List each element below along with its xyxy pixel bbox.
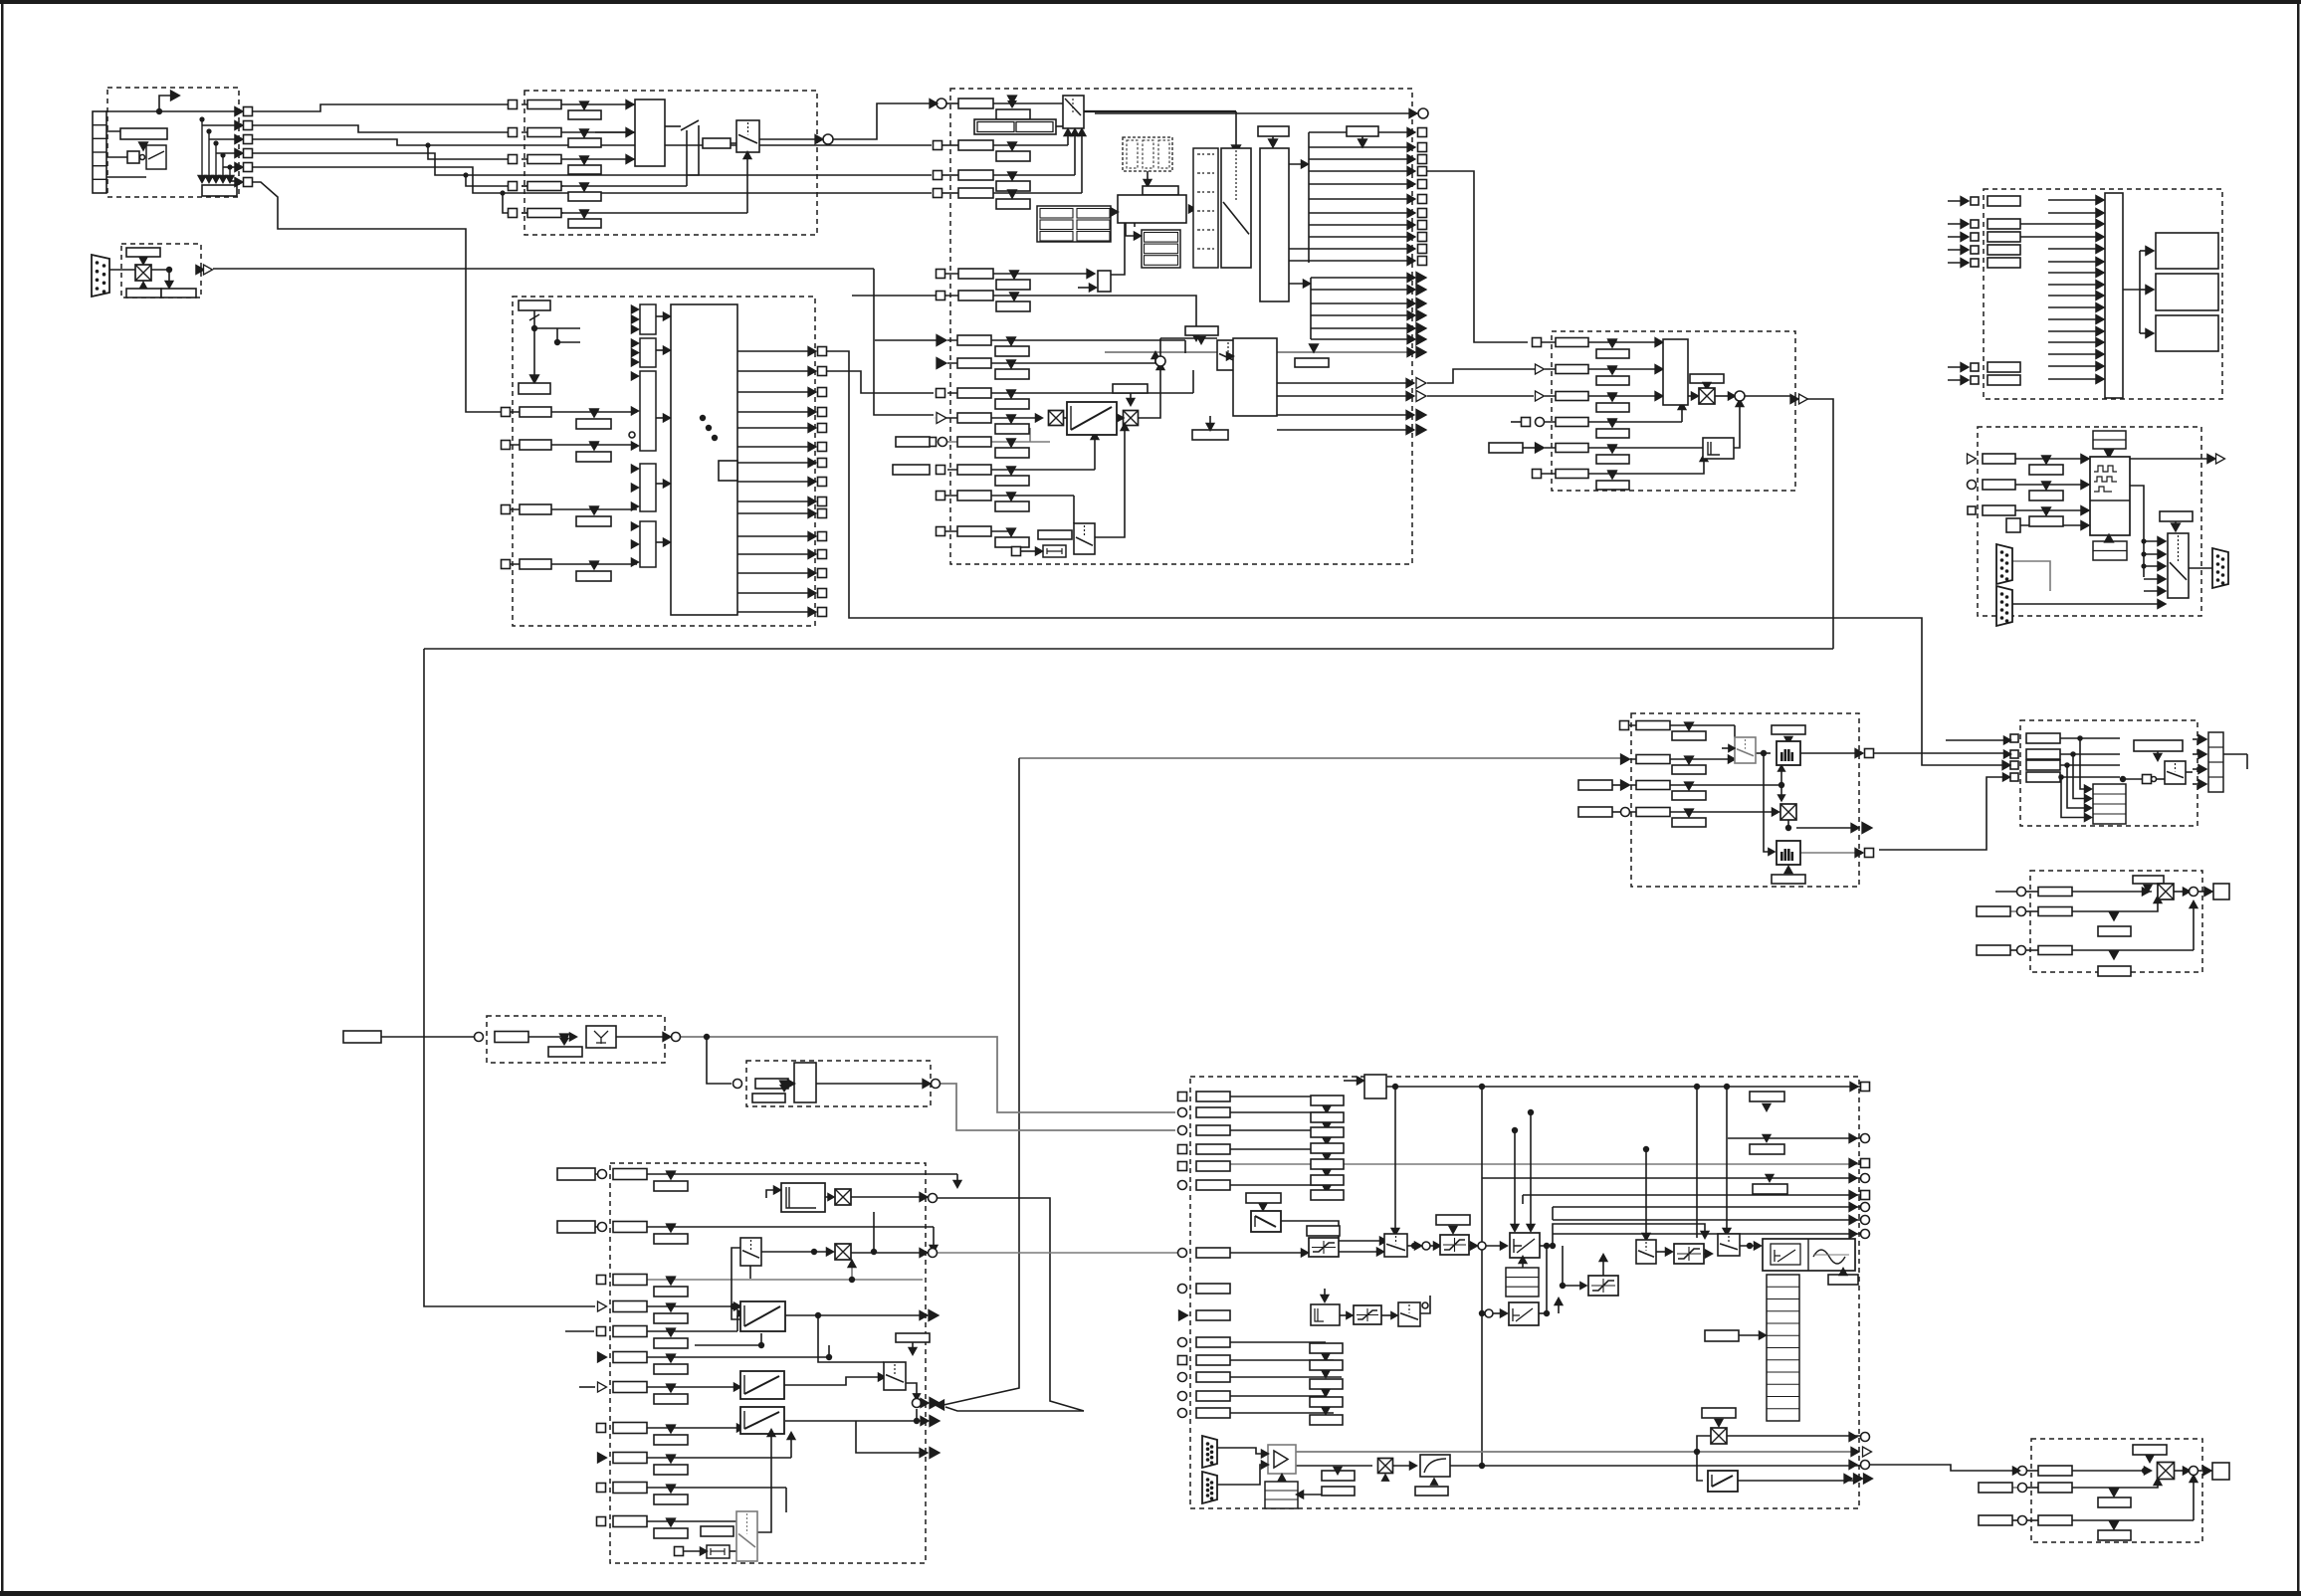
parameter label out354 [1295, 358, 1329, 367]
node: bB input circle1 [2017, 888, 2026, 897]
parameter box Y1 [495, 1032, 528, 1043]
NOT small box [2143, 775, 2152, 784]
wire sc row7 [647, 1386, 737, 1388]
wire bB out [2198, 891, 2208, 893]
wire drop c [1645, 1149, 1647, 1236]
wire status bit 14 [737, 592, 815, 594]
wire: serial down to central delta input [874, 269, 934, 415]
wire status out 11 [1289, 260, 1413, 262]
amp label [1322, 1471, 1355, 1481]
parameter box bB1 [2038, 888, 2072, 897]
node: status output 8 [818, 478, 827, 487]
wire cc row1 [1542, 341, 1663, 343]
selector 2 + sat mid chain [1643, 1146, 1649, 1152]
node: lim output circle [932, 1080, 941, 1089]
ramp-function generator [740, 1407, 784, 1434]
node: input square 472 [937, 466, 945, 475]
wire bus in 4 [2020, 236, 2101, 238]
external parameter box [1489, 443, 1523, 453]
wire status out 1 [1309, 131, 1413, 133]
parameter box tl4 [1196, 1144, 1230, 1154]
parameter value sc5 [654, 1329, 688, 1348]
wire [1722, 747, 1735, 749]
chain parameter box 4 [1311, 1143, 1344, 1153]
node: tl out tri 1486a [1854, 1474, 1863, 1484]
marker [1608, 366, 1617, 374]
tap to setpoint in4 [463, 172, 468, 177]
parameter box serial-lo left [126, 289, 161, 298]
parameter box sc10 [613, 1483, 647, 1494]
marker [1715, 1419, 1723, 1426]
bubble [1422, 1302, 1428, 1308]
node: Y output circle [672, 1033, 681, 1042]
wire bypass [1553, 1224, 1705, 1246]
wire bus in 6 [2048, 261, 2101, 263]
down arrow marker [580, 183, 589, 191]
wire cc row4 [1545, 421, 1682, 423]
gate label [1828, 1275, 1858, 1285]
stub down [168, 270, 170, 283]
junction dots and drops into table [2077, 735, 2083, 741]
dashed group: serial setpoint interface [121, 244, 201, 298]
node: input square 534 [937, 527, 945, 536]
wire pin2 [106, 130, 146, 132]
wire filt row4 [1630, 811, 1774, 813]
parameter value sc6 [654, 1355, 688, 1374]
node: sc input open-tri 1394 [598, 1382, 607, 1392]
page bottom border bar [0, 1591, 2301, 1596]
down-ramp label [1246, 1193, 1281, 1203]
sat2 label [1436, 1215, 1470, 1225]
node: bB sum circle [2190, 888, 2198, 897]
wire PI out [1540, 1245, 1553, 1247]
node: tl input sq 1367 [1178, 1356, 1187, 1365]
wire grid to model [1111, 211, 1118, 213]
wire: block A row1 stub [2003, 736, 2010, 744]
marker [1008, 172, 1017, 180]
external param box bB2 [1977, 906, 2010, 916]
wire status bit 5 [737, 427, 815, 429]
parameter value filt2 [1672, 756, 1706, 774]
parameter label bB-b [2098, 966, 2131, 976]
dashed group: torque limitation and control [1190, 1077, 1859, 1508]
parameter label filt-top [1772, 725, 1805, 734]
node: sc input filled-tri 1465 [598, 1453, 607, 1463]
node: alarm out triangle 2 [1416, 285, 1426, 296]
node: filt input tri1 [1621, 754, 1630, 764]
marker [2110, 951, 2119, 959]
wire sc row10 [647, 1487, 786, 1489]
page right border [2297, 0, 2300, 1596]
wire pin3 [106, 176, 146, 178]
wire sel out [906, 1383, 917, 1396]
wire X out [1796, 827, 1853, 829]
marker [1007, 360, 1016, 368]
selector tall switch [1221, 148, 1251, 268]
wire dsubA to selector [2012, 561, 2050, 591]
parameter box b7-225 [1987, 219, 2020, 229]
wire row534 [945, 530, 1012, 532]
parameter box bico in 3 [520, 504, 551, 514]
wire [695, 1344, 761, 1346]
wire in [1948, 200, 1968, 202]
wire alarm out 2 [1311, 289, 1414, 291]
wire dsubB to selector [2012, 603, 2050, 605]
wire bsel out up [1095, 428, 1125, 537]
wire out 1226 [1553, 1219, 1860, 1221]
node: cc input filled-tri 450 [1536, 443, 1545, 453]
wire in [1948, 249, 1968, 251]
wire sel in 607 [2050, 603, 2162, 605]
output bus vertical [1409, 109, 1417, 118]
node: enc input open-tri [1968, 454, 1977, 464]
marker [909, 1347, 917, 1354]
parameter box ao1 [2038, 1466, 2072, 1476]
wire status bit 6 [737, 446, 815, 448]
chain parameter box 2 [1311, 1112, 1344, 1122]
parameter value box 1 [568, 101, 601, 119]
node: status output 3 [818, 388, 827, 397]
NOT gate box [127, 151, 139, 163]
node: setpoint input 2 [509, 128, 518, 137]
node: status output 1 [818, 347, 827, 356]
wire fan row [230, 180, 235, 182]
node: cc input open-tri 371 [1536, 364, 1545, 374]
wire [1339, 1240, 1383, 1242]
marker up [2105, 534, 2114, 542]
wire filt row1 [1629, 724, 1735, 726]
multiplier X serial scaling [135, 265, 151, 281]
node: tl input sq 1102 [1178, 1093, 1187, 1101]
wire to word mux [511, 563, 637, 565]
wire bA row 4 [2060, 776, 2120, 778]
wire status out 8 [1309, 224, 1413, 226]
parameter label bB-top [2133, 876, 2164, 884]
wire sel in 544 [2144, 540, 2162, 542]
marker [1449, 1226, 1457, 1233]
node: enc output open triangle [2216, 454, 2225, 464]
marker [1008, 190, 1017, 198]
wire satout [1339, 1251, 1379, 1253]
wire into lim [766, 1190, 776, 1198]
node: status output 14 [818, 589, 827, 598]
tall control word rectangle [1260, 148, 1289, 301]
arrow down [530, 375, 539, 383]
node: status out sq 4 [1418, 167, 1427, 176]
node: sc output tri 1428 [930, 1416, 940, 1427]
node: b7 input 251 [1971, 246, 1979, 254]
wire [993, 174, 1075, 176]
parameter label ao-b [2098, 1530, 2131, 1540]
wire to word mux [511, 444, 637, 446]
external param box ao2 [1979, 1483, 2012, 1493]
chain parameter box 5 [1311, 1159, 1344, 1169]
wire bus in 14 [2048, 353, 2101, 355]
arrow up from lower parameter [139, 282, 147, 289]
parameter box bico in 1 [520, 407, 551, 417]
parameter box tl14 [1196, 1408, 1230, 1418]
saturation box 2 [1440, 1235, 1469, 1255]
wire out 432 [1277, 429, 1412, 431]
wire switch control [687, 125, 699, 175]
wire ao out [2198, 1470, 2207, 1472]
wire selector to out dsub [2189, 567, 2212, 569]
wire label to table [1739, 1334, 1762, 1336]
parameter box sc7 [613, 1382, 647, 1393]
wire sc row1 [647, 1173, 957, 1175]
marker [1685, 809, 1694, 817]
chain down arrow [1323, 1185, 1331, 1192]
node: cc output open triangle [1799, 394, 1808, 404]
multiplier X sc2 [835, 1244, 851, 1260]
parameter box bA2 [2026, 749, 2060, 759]
marker [2146, 1455, 2154, 1462]
sequencer status output rows [808, 347, 816, 356]
marker [1608, 339, 1617, 347]
node: digital output 183 [244, 178, 253, 187]
wire [522, 212, 563, 214]
wire sc row4 [647, 1305, 740, 1307]
parameter value sc3 [654, 1278, 688, 1297]
wire fan row [223, 166, 235, 168]
bypass wire over chain [1550, 1243, 1556, 1249]
chain2 down arrow [1322, 1370, 1330, 1377]
node: open triangle out 398 [1416, 391, 1426, 402]
parameter value b342 [995, 337, 1029, 356]
PI controller box [1510, 1233, 1540, 1258]
external param box bB3 [1977, 945, 2010, 955]
parameter label cc-x [1690, 374, 1724, 383]
encoder top parameter 2-row box [2093, 431, 2126, 449]
saturation box 4 [1588, 1276, 1618, 1296]
wire fan verticals [201, 119, 203, 175]
wire [993, 144, 1068, 146]
node: b7 input 225 [1971, 220, 1979, 228]
encoder output selector [2168, 533, 2189, 598]
connector D-sub tl B [1202, 1472, 1217, 1503]
node: filt out tri [1862, 823, 1872, 834]
curve label [1415, 1487, 1448, 1496]
node: tl out circle 1240 [1861, 1230, 1870, 1239]
fan down arrow [226, 175, 234, 182]
wire X out [851, 1196, 922, 1198]
wire ao row3 [2072, 1519, 2194, 1521]
wire in [1948, 379, 1968, 381]
parameter value Y1 [548, 1038, 582, 1057]
node: control input r1 [934, 141, 942, 150]
PI box 2 [1509, 1302, 1539, 1325]
arrows mux to sequencer [663, 312, 670, 320]
node: Y input circle [475, 1033, 484, 1042]
marker [1010, 293, 1019, 300]
wire stub 289 [1078, 287, 1092, 289]
chain2 parameter box 5 [1310, 1415, 1343, 1425]
wire into top box [1344, 1080, 1360, 1082]
wire bA row 3 [2060, 764, 2120, 766]
parameter value sc7 [654, 1385, 688, 1404]
wire sel small out [1420, 1296, 1430, 1313]
multiplier X right [1711, 1428, 1727, 1444]
external source box [343, 1031, 381, 1043]
marker [1334, 1467, 1342, 1474]
multiplier X1 [1049, 411, 1064, 426]
node: sc output tri 1460 [930, 1448, 940, 1459]
node: bA input 4 [2010, 773, 2018, 781]
parameter box tl3 [1196, 1125, 1230, 1135]
parameter value b420 [995, 415, 1029, 434]
wire status out 5 [1309, 183, 1413, 185]
wire sel in 594 [2144, 590, 2162, 592]
arrow model out [1188, 205, 1195, 213]
marker [1197, 336, 1205, 343]
chain down arrow [1323, 1169, 1331, 1176]
wire alarm out 1 [1311, 277, 1414, 279]
wire alarm out 5 [1311, 327, 1414, 329]
wire down [1546, 1246, 1548, 1315]
node: control input 2 [502, 441, 511, 450]
parameter value enc2 [2029, 482, 2063, 500]
marker [1008, 96, 1017, 103]
node: b7 input 202 [1971, 197, 1979, 205]
wire up to sum [2193, 905, 2195, 950]
wire out 417 [1277, 414, 1412, 416]
wire row 1259 [1230, 1252, 1304, 1254]
node: tl input circle 1191 [1178, 1181, 1187, 1190]
parameter value box ctl 2 [576, 443, 611, 462]
parameter box sc4 [613, 1301, 647, 1312]
node: main setpoint output (circle) [823, 134, 833, 144]
tl selector 1 [1384, 1234, 1407, 1257]
parameter box cc6 [1556, 470, 1588, 479]
wire X right out [1727, 1435, 1860, 1437]
node: ao sum circle [2190, 1467, 2198, 1476]
chain2 parameter box 3 [1310, 1379, 1343, 1389]
parameter box b7-251 [1987, 245, 2020, 255]
wire X2 out [851, 1252, 922, 1254]
marker [1007, 467, 1016, 475]
parameter label box [1143, 186, 1178, 195]
wire mini mux up to model [1111, 223, 1125, 275]
tap to setpoint in5 [500, 190, 505, 195]
chain2 down arrow [1322, 1407, 1330, 1414]
parameter box b7-202 [1987, 196, 2020, 206]
parameter box b420 [957, 413, 991, 423]
wire bus out [2123, 289, 2140, 291]
parameter box sc8 [613, 1423, 647, 1434]
marker up into amp [1278, 1474, 1286, 1481]
marker [1685, 722, 1694, 730]
parameter label over X2 [1113, 384, 1148, 393]
marker [667, 1303, 676, 1311]
wire row1 to output [105, 110, 235, 112]
chain2 parameter box 4 [1310, 1397, 1343, 1407]
wire status out 10 [1289, 248, 1413, 250]
wire X to sum [1715, 395, 1730, 397]
word mux small rectangles [640, 304, 656, 334]
node: cc input circle 424 [1536, 418, 1545, 427]
wire vertical to selector [1394, 1087, 1396, 1230]
node: status output 4 [818, 408, 827, 417]
wire bA row 2 [2060, 753, 2120, 755]
wire out 1184 [1482, 1177, 1860, 1179]
wire [684, 1550, 702, 1552]
marker [1007, 415, 1016, 423]
wire branch 1460 [856, 1421, 922, 1453]
chain2 parameter box 2 [1310, 1360, 1343, 1370]
wire label to table [1298, 1494, 1355, 1496]
table 3 rows [1142, 230, 1180, 268]
node: bA input 3 [2010, 761, 2018, 769]
node: b7 input 264 [1971, 259, 1979, 267]
marker [1008, 142, 1017, 150]
wire bB row1 [2072, 891, 2152, 893]
marker [2042, 456, 2051, 464]
wire status bit 15 [737, 611, 815, 613]
wire row365 [947, 362, 1155, 364]
parameter box b7-238 [1987, 232, 2020, 242]
wire row2 cont [595, 131, 635, 133]
parameter box tl2 [1196, 1107, 1230, 1117]
wire out 385 [1277, 382, 1412, 384]
node: small sq scb [675, 1547, 684, 1556]
node: tl input circle 1403 [1178, 1392, 1187, 1401]
bA output stacked squares [2208, 732, 2223, 792]
wire drop 1 [2080, 738, 2086, 789]
external source box s1 [557, 1168, 595, 1180]
marker [2144, 885, 2152, 892]
parameter value r1 [996, 142, 1030, 161]
marker [1269, 139, 1278, 147]
parameter box m297 [958, 291, 993, 300]
wire param to selector [731, 142, 736, 144]
parameter label bsel [1038, 530, 1072, 539]
node: filt out sq1 [1865, 749, 1874, 758]
node: sc output circle 1 [929, 1194, 938, 1203]
parameter label ao-top [2133, 1445, 2167, 1455]
parameter label over tall box [1258, 126, 1289, 136]
wire bus in 13 [2048, 341, 2101, 343]
node: status out sq 9 [1418, 233, 1427, 242]
parameter box cc1 [1556, 338, 1588, 347]
multiplier X bottom [1378, 1459, 1393, 1474]
node: tl input circle 1384 [1178, 1373, 1187, 1382]
parameter box m275 [958, 269, 993, 279]
ramp-function generator [740, 1301, 785, 1331]
wire to word mux [511, 508, 637, 510]
block1 output arrows and squares [235, 107, 243, 116]
wire: serial setpoint long run y270 [934, 417, 936, 419]
parameter value cc3 [1596, 394, 1629, 412]
node: tl out circle 1472 [1861, 1461, 1870, 1470]
wire table to label [1147, 171, 1149, 186]
node: alarm out triangle 1 [1416, 273, 1426, 284]
node: tl out circle 1184 [1861, 1174, 1870, 1183]
wire sel to X2 [761, 1251, 833, 1253]
node: bB output square [2213, 884, 2229, 899]
node: tl sum2 [1478, 1242, 1486, 1250]
tap to setpoint in3 [425, 142, 430, 147]
node: input square 498 [937, 492, 945, 500]
wire branch down to filter2 [1764, 753, 1771, 852]
node: small circle PI2 [1485, 1309, 1493, 1317]
node: status out sq 11 [1418, 257, 1427, 266]
node: sc input filled-tri 1364 [598, 1352, 607, 1362]
slash mark [531, 325, 537, 331]
node: cc input sq 344 [1533, 338, 1542, 347]
parameter value cc6 [1596, 472, 1629, 490]
bottom compare box [1043, 545, 1066, 557]
marker [667, 1328, 676, 1336]
